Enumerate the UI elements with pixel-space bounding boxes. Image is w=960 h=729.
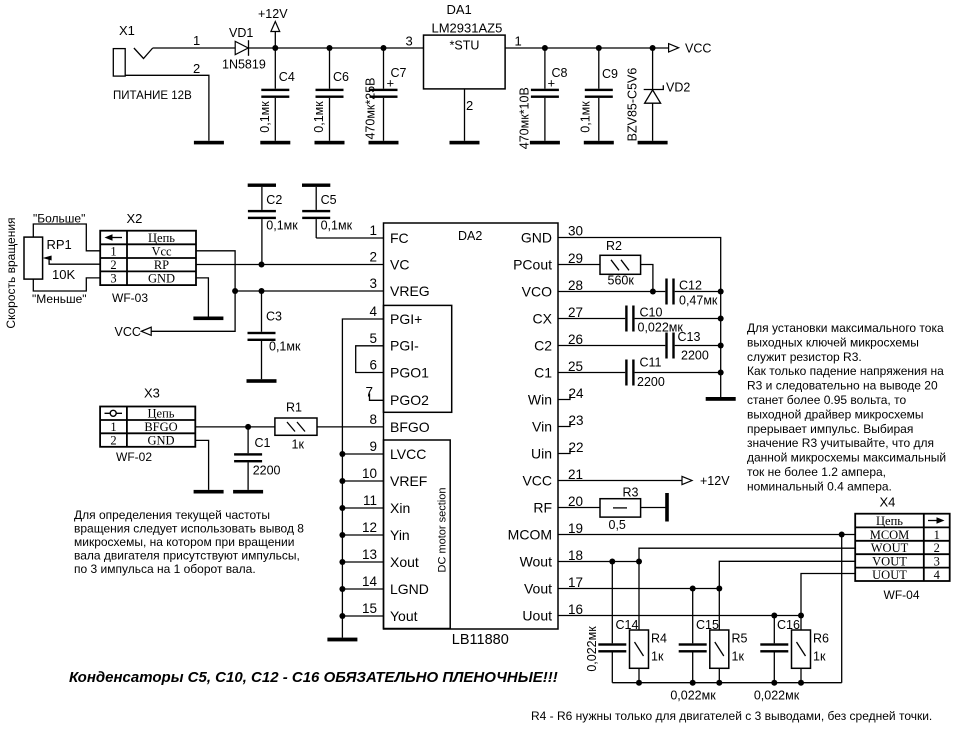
wire pin24 stub <box>558 394 570 400</box>
wire bottom rail <box>612 682 841 684</box>
svg-text:CX: CX <box>533 310 553 326</box>
connector X3 WF-02 <box>100 386 195 465</box>
svg-text:1к: 1к <box>292 438 305 452</box>
svg-text:VREF: VREF <box>390 473 427 489</box>
svg-text:RF: RF <box>533 499 552 515</box>
svg-text:C12: C12 <box>679 279 702 293</box>
wire pin4 PGI+ to ground bus <box>342 319 383 638</box>
svg-text:0,022мк: 0,022мк <box>754 689 800 703</box>
svg-text:Для определения текущей частот: Для определения текущей частоты <box>74 508 270 522</box>
svg-text:C2: C2 <box>534 337 552 353</box>
node junction C3/VREG <box>259 288 265 294</box>
svg-text:0,1мк: 0,1мк <box>266 219 298 233</box>
svg-text:*STU: *STU <box>450 39 480 53</box>
svg-text:станет более 0.95 вольта, то: станет более 0.95 вольта, то <box>747 393 906 407</box>
svg-text:10K: 10K <box>52 267 75 282</box>
svg-text:0,022мк: 0,022мк <box>670 689 716 703</box>
svg-text:Vcc: Vcc <box>151 245 172 259</box>
capacitor C7 470мк*25В (polar) <box>364 48 407 141</box>
wire pin17 Vout <box>558 588 719 590</box>
node junction rail/R6 <box>798 680 804 686</box>
svg-text:Wout: Wout <box>520 553 553 569</box>
capacitor C8 470мк*10В (polar) <box>518 48 568 149</box>
svg-text:R3 и следовательно на выводе 2: R3 и следовательно на выводе 20 <box>747 379 938 393</box>
svg-text:C4: C4 <box>279 70 295 84</box>
svg-text:2: 2 <box>369 250 377 265</box>
wire pin5-pin6 jumper <box>356 346 384 373</box>
node junction C11/bus <box>718 370 724 376</box>
node junction C16/Uout <box>771 613 777 619</box>
svg-text:Vin: Vin <box>532 418 552 434</box>
svg-text:DC motor section: DC motor section <box>437 488 449 573</box>
node junction rail/C15 <box>690 680 696 686</box>
svg-text:10: 10 <box>362 466 377 481</box>
svg-text:R5: R5 <box>732 632 748 646</box>
capacitor C6 0,1мк <box>312 48 349 141</box>
svg-text:C5: C5 <box>321 193 337 207</box>
svg-text:WOUT: WOUT <box>871 541 909 555</box>
svg-text:2: 2 <box>193 61 200 76</box>
node junction C12/bus <box>718 289 724 295</box>
svg-text:Xout: Xout <box>390 554 419 570</box>
ground (C4) <box>260 141 290 145</box>
svg-text:17: 17 <box>568 575 583 590</box>
capacitor C1 2200 <box>234 427 280 490</box>
svg-text:BZV85-C5V6: BZV85-C5V6 <box>626 68 640 142</box>
resistor R3 0,5 <box>600 486 641 533</box>
node junction at C7 <box>381 45 387 51</box>
svg-text:VREG: VREG <box>390 283 430 299</box>
capacitor C5 0,1мк (to ground above) <box>302 184 353 239</box>
svg-text:выходной драйвер микросхемы: выходной драйвер микросхемы <box>747 407 924 421</box>
svg-text:GND: GND <box>147 433 174 447</box>
node junction C1/BFGO <box>245 424 251 430</box>
node junction C14/Wout <box>609 559 615 565</box>
svg-text:0,5: 0,5 <box>609 518 626 532</box>
wire pin19 MCOM to X4 <box>558 534 855 536</box>
svg-text:30: 30 <box>568 224 583 239</box>
wire VD1 to DA1 pin3 <box>249 47 424 49</box>
wire X1 pin1 to VD1 <box>153 47 236 49</box>
svg-text:X2: X2 <box>127 211 143 226</box>
wire pin10 VREF <box>342 480 383 482</box>
svg-text:R4 - R6 нужны только для двига: R4 - R6 нужны только для двигателей с 3 … <box>531 709 932 723</box>
svg-text:Цепь: Цепь <box>148 231 175 245</box>
capacitor C16 0,022мк <box>754 616 800 703</box>
ground (right bus) <box>706 397 736 401</box>
svg-text:C1: C1 <box>255 436 271 450</box>
node junction R5/Vout <box>716 586 722 592</box>
svg-text:29: 29 <box>568 251 583 266</box>
svg-text:MCOM: MCOM <box>508 526 552 542</box>
svg-text:VCC: VCC <box>115 325 141 339</box>
capacitor C13 2200 <box>665 330 720 363</box>
svg-text:0,022мк: 0,022мк <box>638 321 684 335</box>
svg-text:28: 28 <box>568 278 583 293</box>
wire X2 GND to ground <box>196 278 208 317</box>
svg-text:вращения следует использовать: вращения следует использовать вывод 8 <box>74 522 304 536</box>
svg-text:PGI-: PGI- <box>390 338 419 354</box>
ground (C3) <box>247 379 277 383</box>
svg-text:26: 26 <box>568 332 583 347</box>
svg-text:24: 24 <box>569 386 585 401</box>
svg-text:микросхемы, на котором при вра: микросхемы, на котором при вращении <box>74 535 294 549</box>
svg-text:4: 4 <box>934 568 941 582</box>
wire pin15 Yout <box>342 615 383 617</box>
svg-text:9: 9 <box>369 439 377 454</box>
svg-text:2200: 2200 <box>681 349 709 363</box>
svg-text:PGI+: PGI+ <box>390 311 422 327</box>
svg-text:C2: C2 <box>266 193 282 207</box>
svg-text:R1: R1 <box>286 401 302 415</box>
IC DA2 LB11880 <box>384 223 559 648</box>
resistor R1 1к <box>275 401 317 452</box>
node junction at C6 <box>327 45 333 51</box>
wire RP1 bottom to X2 pin3 <box>33 278 100 291</box>
svg-text:номинальный 0.4 ампера.: номинальный 0.4 ампера. <box>747 479 892 493</box>
svg-text:Yin: Yin <box>390 527 410 543</box>
svg-text:C9: C9 <box>602 67 618 81</box>
wire pin25 C1 to C11 <box>558 372 625 374</box>
svg-text:5: 5 <box>369 331 377 346</box>
wire pin26 C2 to C13 <box>558 345 665 347</box>
wire pin21 VCC to +12V <box>558 480 682 482</box>
node junction MCOM bus <box>839 532 845 538</box>
ground (X1 pin2) <box>194 141 224 145</box>
IC right pin numbers <box>568 224 584 618</box>
svg-text:Xin: Xin <box>390 500 410 516</box>
svg-text:X3: X3 <box>144 386 160 401</box>
svg-text:1: 1 <box>515 34 522 49</box>
svg-text:0,1мк: 0,1мк <box>258 101 272 133</box>
+12V power arrow <box>258 7 288 48</box>
svg-text:8: 8 <box>369 412 377 427</box>
wire pin13 Xout <box>342 561 383 563</box>
svg-text:2200: 2200 <box>253 464 281 478</box>
svg-text:ток не более 1.2 ампера,: ток не более 1.2 ампера, <box>747 465 886 479</box>
capacitor C11 2200 <box>625 356 721 390</box>
svg-text:12: 12 <box>362 520 377 535</box>
wire X2 RP to IC pin2 VC <box>196 264 384 266</box>
svg-text:GND: GND <box>521 229 552 245</box>
svg-text:1к: 1к <box>813 650 826 664</box>
svg-text:BFGO: BFGO <box>144 420 177 434</box>
svg-text:Цепь: Цепь <box>876 514 903 528</box>
svg-text:2200: 2200 <box>637 375 665 389</box>
svg-text:27: 27 <box>568 305 583 320</box>
wire pin27 CX to C10 <box>558 318 625 320</box>
wire pin30 GND to bus <box>558 238 721 398</box>
svg-text:20: 20 <box>568 494 583 509</box>
left note text <box>74 508 304 576</box>
svg-text:1N5819: 1N5819 <box>222 58 266 72</box>
svg-text:UOUT: UOUT <box>872 568 907 582</box>
capacitor C15 0,022мк <box>670 589 719 703</box>
svg-text:4: 4 <box>369 304 377 319</box>
svg-text:1: 1 <box>934 528 940 542</box>
wire pin14 LGND <box>342 588 383 590</box>
wire MCOM bus down to RC rail <box>841 535 843 683</box>
wire VOUT row <box>719 561 855 588</box>
VCC output arrow <box>669 42 712 56</box>
svg-text:LB11880: LB11880 <box>452 632 509 648</box>
svg-text:Как только падение напряжения: Как только падение напряжения на <box>747 364 944 378</box>
svg-text:Yout: Yout <box>390 608 418 624</box>
svg-text:23: 23 <box>569 413 584 428</box>
ground (C7) <box>369 141 399 145</box>
resistor R2 560к <box>600 239 641 288</box>
svg-text:VC: VC <box>390 256 409 272</box>
svg-text:1к: 1к <box>651 650 664 664</box>
node junction at C8 <box>542 45 548 51</box>
node junction R2/VCO <box>650 289 656 295</box>
svg-text:по 3 импульса на 1 оборот вала: по 3 импульса на 1 оборот вала. <box>74 562 256 576</box>
wire pin29 PCout to R2 <box>558 264 600 266</box>
node junction rail/C16 <box>771 680 777 686</box>
svg-text:VD2: VD2 <box>666 81 690 95</box>
wire X3 BFGO to R1 <box>195 426 275 428</box>
svg-text:PGO1: PGO1 <box>390 364 429 380</box>
ground (left bus) <box>327 638 357 642</box>
node junction R6/Uout <box>798 613 804 619</box>
svg-text:PGO2: PGO2 <box>390 392 429 408</box>
svg-text:6: 6 <box>369 358 377 373</box>
svg-text:BFGO: BFGO <box>390 419 430 435</box>
ground (C8) <box>530 141 560 145</box>
node junction at VD2 <box>650 45 656 51</box>
svg-text:0,022мк: 0,022мк <box>585 626 599 672</box>
node junction C13/bus <box>718 343 724 349</box>
svg-text:RP: RP <box>154 258 169 272</box>
resistor R5 1к <box>710 589 748 683</box>
svg-text:прерывает импульс. Выбирая: прерывает импульс. Выбирая <box>747 422 913 436</box>
svg-text:14: 14 <box>362 574 378 589</box>
svg-text:13: 13 <box>362 547 377 562</box>
wire R2 to pin28 node <box>641 265 653 292</box>
svg-text:служит резистор R3.: служит резистор R3. <box>747 350 862 364</box>
IC left pin labels <box>390 230 430 624</box>
wire X1 pin2 sleeve to ground <box>125 75 209 141</box>
svg-text:0,1мк: 0,1мк <box>579 101 593 133</box>
svg-text:"Меньше": "Меньше" <box>32 292 87 306</box>
svg-text:+: + <box>387 76 395 91</box>
svg-text:22: 22 <box>569 440 584 455</box>
svg-text:11: 11 <box>363 493 377 508</box>
svg-text:1: 1 <box>369 223 377 238</box>
svg-text:3: 3 <box>110 272 116 286</box>
node junction at C4 <box>272 45 278 51</box>
svg-text:+: + <box>548 76 556 91</box>
capacitor C9 0,1мк <box>579 48 619 141</box>
ground (R3, vertical bar) <box>665 493 669 522</box>
svg-text:+12V: +12V <box>700 474 730 488</box>
svg-text:WF-02: WF-02 <box>116 450 152 464</box>
resistor R6 1к <box>792 616 830 683</box>
svg-text:X1: X1 <box>119 23 135 38</box>
ground (X2 GND) <box>193 317 223 321</box>
ground (DA1 pin2) <box>450 141 480 145</box>
svg-text:C13: C13 <box>678 330 701 344</box>
IC left pin numbers <box>362 223 378 616</box>
capacitor C12 0,47мк <box>665 279 720 308</box>
wire VREG line <box>235 290 383 292</box>
svg-text:PCout: PCout <box>513 256 552 272</box>
svg-text:21: 21 <box>568 467 583 482</box>
svg-text:DA2: DA2 <box>458 229 482 243</box>
wire DA1 out to VCC <box>505 47 668 49</box>
ground (X3 GND) <box>194 490 224 494</box>
node junction rail/R4 <box>636 680 642 686</box>
potentiometer RP1 10K <box>24 237 100 282</box>
svg-text:VD1: VD1 <box>229 26 253 40</box>
wire pin7 stub <box>370 394 384 401</box>
svg-text:3: 3 <box>369 276 377 291</box>
svg-text:16: 16 <box>568 602 583 617</box>
wire pin12 Yin <box>342 534 383 536</box>
svg-text:2: 2 <box>110 258 116 272</box>
regulator DA1 LM2931AZ5 <box>406 2 522 113</box>
wire R3 to ground bar <box>641 507 667 509</box>
svg-text:C11: C11 <box>640 356 662 370</box>
svg-text:GND: GND <box>148 272 175 286</box>
wire R1 to IC pin8 BFGO <box>317 426 384 428</box>
ground (VD2) <box>638 141 668 145</box>
wire WOUT row <box>639 548 855 561</box>
node junction C10/bus <box>718 316 724 322</box>
svg-text:Uout: Uout <box>522 607 552 623</box>
svg-text:25: 25 <box>568 359 583 374</box>
svg-text:15: 15 <box>362 601 377 616</box>
ground (C9) <box>584 141 614 145</box>
node junction at C9 <box>596 45 602 51</box>
svg-text:DA1: DA1 <box>447 2 472 17</box>
svg-text:C3: C3 <box>266 310 282 324</box>
capacitor C14 0,022мк <box>585 562 638 683</box>
capacitor C2 0,1мк (to ground above) <box>248 184 299 265</box>
wire pin16 Uout <box>558 615 801 617</box>
svg-text:3: 3 <box>406 34 413 49</box>
svg-text:0,1мк: 0,1мк <box>321 219 353 233</box>
node junction R4/Wout <box>636 559 642 565</box>
svg-text:470мк*25В: 470мк*25В <box>364 77 378 139</box>
svg-text:"Больше": "Больше" <box>33 212 85 226</box>
svg-text:+12V: +12V <box>258 7 288 21</box>
svg-text:LGND: LGND <box>390 581 429 597</box>
wire X3 GND to ground <box>195 440 208 490</box>
svg-text:3: 3 <box>934 555 940 569</box>
VCC arrow (to X2 Vcc) <box>115 325 152 339</box>
svg-text:VCO: VCO <box>522 283 552 299</box>
svg-text:LVCC: LVCC <box>390 446 426 462</box>
svg-text:470мк*10В: 470мк*10В <box>518 87 532 149</box>
wire X2 Vcc to VREG node and VCC arrow <box>151 251 235 331</box>
node junction rail/R5 <box>716 680 722 686</box>
svg-text:1: 1 <box>193 33 200 48</box>
svg-text:0,47мк: 0,47мк <box>679 294 718 308</box>
right note text <box>747 321 946 493</box>
svg-text:VCC: VCC <box>522 472 552 488</box>
wire RP1 top to X2 pin1 <box>33 224 100 251</box>
svg-text:1: 1 <box>110 245 116 259</box>
ground (C1) <box>233 490 263 494</box>
svg-text:R2: R2 <box>606 239 622 253</box>
wire UOUT row <box>801 574 855 616</box>
wire pin9 LVCC <box>342 453 383 455</box>
svg-text:Скорость вращения: Скорость вращения <box>4 217 18 328</box>
svg-text:C6: C6 <box>333 70 349 84</box>
svg-text:2: 2 <box>934 541 940 555</box>
diode VD1 1N5819 <box>222 26 266 72</box>
node junction C2/VC <box>259 262 265 268</box>
svg-text:Цепь: Цепь <box>148 407 175 421</box>
svg-text:Vout: Vout <box>524 580 552 596</box>
svg-text:RP1: RP1 <box>47 237 72 252</box>
+12V arrow (pin21) <box>682 474 730 488</box>
svg-text:MCOM: MCOM <box>870 528 910 542</box>
svg-text:Win: Win <box>528 391 552 407</box>
svg-text:C1: C1 <box>534 364 552 380</box>
wire DA1 pin2 to ground <box>464 89 466 141</box>
wire pin20 RF to R3 <box>558 507 600 509</box>
svg-text:Uin: Uin <box>531 445 552 461</box>
svg-text:2: 2 <box>110 433 116 447</box>
ground (C6) <box>315 141 345 145</box>
svg-text:X4: X4 <box>880 495 896 510</box>
node junction Vcc/VREG <box>232 288 238 294</box>
svg-text:WF-04: WF-04 <box>884 588 920 602</box>
capacitor C4 0,1мк <box>258 48 295 141</box>
IC right pin labels <box>508 229 553 623</box>
svg-text:VCC: VCC <box>685 42 711 56</box>
wire C5 to IC pin1 FC <box>316 237 383 239</box>
capacitor C3 0,1мк <box>248 291 301 379</box>
connector X2 WF-03 <box>100 211 196 305</box>
svg-text:1к: 1к <box>732 650 745 664</box>
svg-text:выходных ключей микросхемы: выходных ключей микросхемы <box>747 335 919 349</box>
svg-text:вала двигателя присутствуют и: вала двигателя присутствуют импульсы, <box>74 549 300 563</box>
svg-text:0,1мк: 0,1мк <box>269 340 301 354</box>
svg-text:FC: FC <box>390 230 409 246</box>
connector X4 WF-04 <box>855 495 950 603</box>
resistor R4 1к <box>630 562 668 683</box>
svg-text:значение R3 учитывайте, что дл: значение R3 учитывайте, что для <box>747 436 934 450</box>
svg-text:18: 18 <box>568 548 583 563</box>
zener diode VD2 BZV85-C5V6 <box>626 48 691 141</box>
connector X1 (power jack) <box>113 23 200 102</box>
svg-text:WF-03: WF-03 <box>112 291 148 305</box>
svg-text:R6: R6 <box>813 632 829 646</box>
wire pin11 Xin <box>342 507 383 509</box>
svg-text:R3: R3 <box>623 486 639 500</box>
svg-text:ПИТАНИЕ 12В: ПИТАНИЕ 12В <box>113 90 192 102</box>
wire pin28 VCO to C12 <box>558 291 665 293</box>
svg-text:Конденсаторы С5, С10, С12 - С1: Конденсаторы С5, С10, С12 - С16 ОБЯЗАТЕЛ… <box>69 669 558 686</box>
svg-text:LM2931AZ5: LM2931AZ5 <box>432 21 503 36</box>
wire pin18 Wout <box>558 561 639 563</box>
svg-text:19: 19 <box>568 521 583 536</box>
capacitor C10 0,022мк <box>625 305 721 334</box>
svg-text:0,1мк: 0,1мк <box>312 101 326 133</box>
wire pin22 stub <box>558 448 570 454</box>
wire pin23 stub <box>558 421 570 427</box>
svg-text:1: 1 <box>110 420 116 434</box>
svg-text:Для установки максимального то: Для установки максимального тока <box>747 321 944 335</box>
svg-text:VOUT: VOUT <box>872 555 907 569</box>
node junction C15/Vout <box>690 586 696 592</box>
svg-text:данной микросхемы максимальный: данной микросхемы максимальный <box>747 451 946 465</box>
svg-text:R4: R4 <box>651 632 667 646</box>
svg-text:C10: C10 <box>640 305 663 319</box>
